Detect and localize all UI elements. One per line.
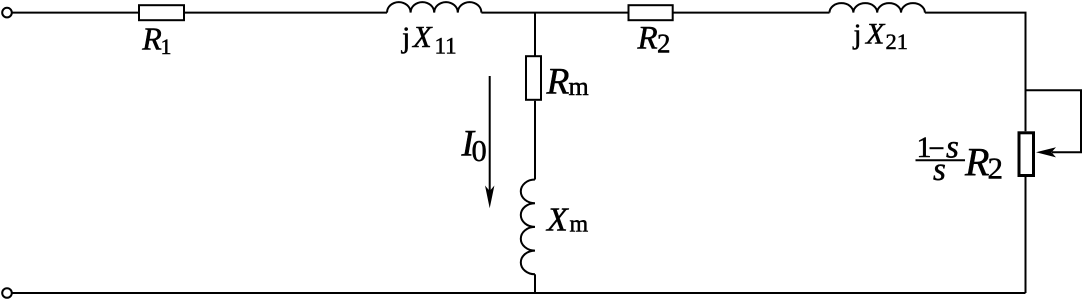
arrowhead of slider arrow <box>1036 147 1056 157</box>
svg-text:21: 21 <box>886 29 909 54</box>
wire R1 to jX11 <box>184 12 387 14</box>
svg-text:1: 1 <box>917 131 932 164</box>
svg-text:1: 1 <box>161 34 172 59</box>
svg-text:j: j <box>401 21 410 54</box>
wire jX21 to top-right corner and down to variable resistor <box>925 13 1026 132</box>
svg-text:0: 0 <box>472 134 487 168</box>
svg-text:R: R <box>637 21 658 57</box>
svg-text:X: X <box>411 20 433 54</box>
terminal (input top) <box>2 8 12 18</box>
svg-text:2: 2 <box>988 151 1004 186</box>
wire jX11 to R2, through node at middle branch <box>481 12 627 14</box>
label jX21 <box>853 17 909 54</box>
inductor jX21 <box>830 3 925 12</box>
svg-text:m: m <box>570 212 589 238</box>
wire top-left to R1 <box>12 12 138 14</box>
wire Xm to bottom wire <box>534 274 536 293</box>
resistor R1 <box>139 5 184 20</box>
wire variable resistor to bottom-right corner <box>1025 177 1027 293</box>
wire Rm to Xm <box>534 101 536 180</box>
resistor (1-s)/s R2 (variable) <box>1019 133 1034 176</box>
inductor jX11 <box>387 2 481 13</box>
svg-text:X: X <box>865 17 886 50</box>
svg-text:m: m <box>569 72 589 101</box>
label Rm <box>546 61 589 102</box>
current arrow I0 <box>485 76 494 208</box>
resistor R2 <box>629 5 673 20</box>
label jX11 <box>401 20 457 59</box>
svg-text:R: R <box>141 21 162 57</box>
label R1 <box>141 21 171 59</box>
wire slider bracket of variable resistor <box>1026 90 1082 152</box>
label I0 <box>461 123 487 168</box>
svg-text:11: 11 <box>435 33 457 58</box>
resistor Rm <box>526 56 541 100</box>
label R2 <box>637 21 671 59</box>
svg-text:s: s <box>933 152 946 188</box>
svg-text:R: R <box>964 140 989 185</box>
wire middle node down to Rm <box>534 13 536 56</box>
svg-text:j: j <box>853 18 862 50</box>
svg-text:R: R <box>546 61 570 102</box>
svg-text:2: 2 <box>657 29 671 59</box>
inductor Xm <box>521 180 535 275</box>
terminal (input bottom) <box>2 288 12 298</box>
label Xm <box>545 202 589 239</box>
wire R2 to jX21 <box>673 12 830 14</box>
label (1-s)/s R2 <box>916 130 1004 189</box>
svg-text:X: X <box>545 202 569 239</box>
wire bottom <box>12 292 1026 294</box>
